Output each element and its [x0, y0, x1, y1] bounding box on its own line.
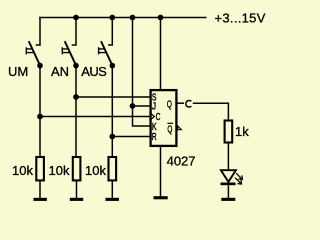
node: rail junction over IC supply — [158, 15, 164, 21]
wire: R input line to IC — [112, 136, 149, 138]
switch S2 AN: moving contact dot — [73, 63, 79, 69]
switch S2 AN: fixed contact stub — [72, 17, 76, 45]
wire: UM column down to R1 — [39, 66, 41, 157]
wire: AUS column down to R3 — [111, 66, 113, 157]
svg-text:10k: 10k — [12, 163, 33, 178]
svg-text:10k: 10k — [49, 163, 70, 178]
ground: IC — [154, 196, 168, 199]
switch S3 AUS: moving contact dot — [110, 63, 116, 69]
wire: Q output stub — [178, 102, 185, 104]
switch S3 AUS: fixed contact stub — [108, 17, 112, 45]
ground: R2 — [70, 198, 83, 201]
wire: J input line to IC — [133, 105, 150, 107]
switch S2 AN: lever — [65, 41, 76, 65]
svg-text:J: J — [152, 101, 156, 112]
switch S2 AN: push actuator — [62, 47, 69, 54]
switch S1 UM: lever — [29, 41, 40, 65]
overline of Q-bar — [167, 122, 173, 124]
svg-text:4027: 4027 — [167, 154, 196, 169]
resistor R2 10k — [73, 157, 81, 180]
svg-text:AUS: AUS — [81, 64, 107, 79]
wire: +V supply rail — [39, 17, 206, 19]
node: rail junction over AN — [73, 15, 79, 21]
wire: Q output to R4 — [193, 103, 229, 120]
LED light arrow 2 — [235, 178, 241, 184]
switch S1 UM: push actuator — [26, 47, 33, 54]
wire: IC supply from rail to box top — [160, 18, 162, 90]
svg-text:R: R — [152, 132, 157, 143]
ground: LED — [221, 198, 235, 201]
svg-text:1k: 1k — [235, 124, 249, 139]
op-amp U1 4027 flip-flop body — [151, 90, 177, 146]
wire: IC ground pin — [160, 146, 162, 198]
resistor R1 10k — [36, 157, 44, 180]
wire: R1 to ground — [39, 181, 41, 198]
svg-text:Q: Q — [167, 99, 172, 110]
connector arc on Q output — [186, 100, 192, 107]
svg-text:Q: Q — [167, 125, 172, 136]
ground: R3 — [106, 198, 119, 201]
switch S1 UM: fixed contact stub — [36, 17, 40, 45]
resistor R3 10k — [109, 157, 117, 180]
LED D1 cathode bar — [221, 183, 236, 186]
LED light arrow 1 — [236, 173, 242, 179]
wire: R3 to ground — [111, 181, 113, 198]
wire: R4 to LED — [227, 143, 229, 170]
node: rail junction over J/K tie — [130, 15, 136, 21]
node: junction J input on tie — [130, 103, 136, 109]
wire: J/K tie from rail down and into K input — [133, 18, 150, 127]
wire: AN column down to R2 — [75, 66, 77, 157]
switch S3 AUS: push actuator — [99, 47, 106, 54]
wire: R2 to ground — [76, 181, 78, 198]
svg-text:AN: AN — [51, 64, 69, 79]
resistor R4 1k — [225, 121, 233, 143]
node: junction C input / UM column — [37, 114, 43, 120]
wire: S input line to IC — [76, 96, 150, 98]
node: rail junction over AUS — [109, 15, 115, 21]
svg-text:UM: UM — [8, 64, 28, 79]
switch S1 UM: moving contact dot — [37, 63, 43, 69]
wire: C input line to IC — [40, 116, 150, 118]
LED D1 triangle — [221, 170, 236, 182]
ground: R1 — [34, 198, 47, 201]
wire: LED to ground — [227, 185, 229, 198]
switch S3 AUS: lever — [101, 41, 112, 65]
svg-text:+3...15V: +3...15V — [215, 10, 266, 25]
svg-text:10k: 10k — [85, 163, 106, 178]
node: junction S input / AN column — [73, 94, 79, 100]
marker: unconnected Q-bar pin flag — [178, 126, 182, 130]
clock chevron on C pin — [150, 113, 154, 120]
node: junction R input / AUS column — [109, 134, 115, 140]
